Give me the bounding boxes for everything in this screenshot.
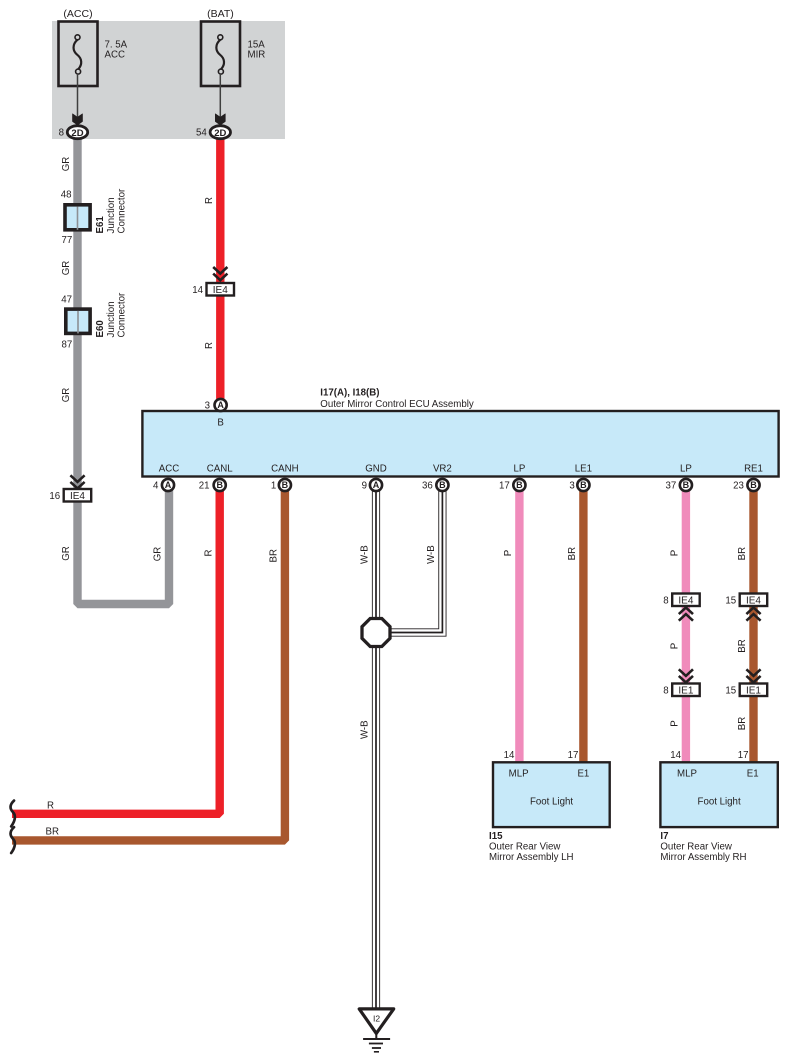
wire R from fuse MIR down to ECU pin 3 [216,136,224,401]
pin 23 B [733,479,759,492]
svg-text:R: R [204,342,215,349]
svg-text:16: 16 [49,491,60,502]
svg-text:E1: E1 [577,769,589,780]
pin 21 B [199,479,226,492]
svg-text:B: B [217,418,223,429]
svg-text:E60: E60 [95,320,106,337]
svg-text:BR: BR [269,549,280,562]
svg-text:(BAT): (BAT) [207,8,234,20]
svg-text:17: 17 [738,750,749,761]
svg-text:B: B [282,480,289,490]
svg-text:B: B [516,480,523,490]
svg-text:87: 87 [62,339,73,350]
svg-text:P: P [503,550,514,556]
svg-text:R: R [203,550,214,557]
svg-text:3: 3 [569,481,574,492]
svg-text:4: 4 [153,481,159,492]
svg-text:P: P [670,720,681,726]
svg-text:I15: I15 [489,831,503,842]
pin 9 A [362,479,382,492]
connector IE4 pin 8 [663,594,699,621]
svg-text:ACC: ACC [159,464,179,475]
svg-text:B: B [683,480,690,490]
caption I7 Outer Rear View Mirror Assembly RH [660,831,746,863]
foot light box LH [493,750,610,827]
svg-text:MLP: MLP [509,769,529,780]
svg-text:8: 8 [663,596,668,607]
svg-text:RE1: RE1 [744,464,763,475]
wire GR below IE4 elbow up to ECU pin ACC [78,488,170,604]
svg-text:B: B [439,480,446,490]
svg-text:B: B [580,480,587,490]
svg-text:Connector: Connector [117,292,128,337]
svg-text:IE4: IE4 [70,491,85,502]
svg-text:LE1: LE1 [575,464,592,475]
svg-text:W-B: W-B [360,720,371,739]
pin 1 B [271,479,291,492]
wire P from LP pin 37 to foot light MLP RH [682,488,690,762]
pin 3 B [569,479,589,492]
foot light box RH [660,750,777,827]
svg-text:14: 14 [670,750,681,761]
junction connector E60 [61,292,127,350]
connector IE4 pin 16 [49,489,91,502]
svg-text:I17(A), I18(B): I17(A), I18(B) [320,388,379,399]
svg-text:I7: I7 [660,831,668,842]
svg-text:B: B [750,480,757,490]
svg-text:17: 17 [568,750,579,761]
svg-text:15: 15 [725,596,736,607]
svg-text:LP: LP [680,464,692,475]
svg-text:(ACC): (ACC) [63,8,92,20]
svg-text:GND: GND [365,464,387,475]
svg-text:8: 8 [663,686,668,697]
svg-text:3: 3 [205,401,210,412]
svg-text:Outer Rear View: Outer Rear View [489,842,561,853]
svg-text:21: 21 [199,481,210,492]
svg-text:Junction: Junction [106,301,117,337]
wire W-B from VR2 pin elbow into octagon junction [389,488,442,633]
cut mark squiggle BR [11,827,15,853]
svg-text:Foot Light: Foot Light [698,797,741,808]
fuse 15A MIR [201,8,265,86]
caption I15 Outer Rear View Mirror Assembly LH [489,831,574,863]
fuse MIR output lead and arrow [215,74,225,126]
connector IE1 pin 15 [725,669,767,696]
svg-text:15: 15 [725,686,736,697]
svg-text:14: 14 [192,285,203,296]
svg-text:BR: BR [737,717,748,730]
svg-text:14: 14 [504,750,515,761]
octagon junction of GND wires [362,619,390,647]
svg-text:2D: 2D [214,128,226,139]
wire W-B from GND pin down to ground I2 [372,488,380,1010]
svg-text:A: A [217,400,224,410]
svg-text:E1: E1 [747,769,759,780]
svg-text:A: A [373,480,380,490]
pin 37 B [666,479,692,492]
svg-text:IE4: IE4 [746,596,761,607]
svg-text:77: 77 [62,235,73,246]
wire BR from RE1 pin 23 to foot light E1 RH [749,488,757,762]
svg-text:9: 9 [362,481,367,492]
svg-text:Foot Light: Foot Light [530,797,573,808]
arrow into IE4 pin 14 [213,267,227,280]
cut mark squiggle R [11,801,15,827]
pin 3 A top [205,399,227,429]
svg-text:Connector: Connector [117,188,128,233]
svg-text:MIR: MIR [248,50,266,61]
svg-text:BR: BR [46,827,59,838]
svg-text:BR: BR [737,639,748,652]
svg-text:IE4: IE4 [678,596,693,607]
svg-text:36: 36 [422,481,433,492]
svg-text:Outer Rear View: Outer Rear View [660,842,732,853]
svg-text:LP: LP [513,464,525,475]
ground symbol I2 [359,1009,394,1052]
svg-text:GR: GR [153,547,164,562]
svg-text:W-B: W-B [360,545,371,564]
svg-text:W-B: W-B [426,545,437,564]
svg-text:GR: GR [61,261,72,276]
wire GR from fuse ACC down to IE4 [73,136,81,489]
pin 17 B [499,479,525,492]
svg-text:B: B [216,480,223,490]
fuse 7.5A ACC [59,8,128,86]
wire P from LP pin 17 to foot light MLP [515,488,523,762]
svg-text:R: R [204,197,215,204]
svg-text:P: P [670,643,681,649]
connector IE4 pin 15 [725,594,767,621]
svg-text:17: 17 [499,481,510,492]
wire BR from LE1 pin 3 to foot light E1 [579,488,587,762]
fuse ACC output lead and arrow [73,74,83,126]
svg-text:E61: E61 [95,216,106,234]
svg-text:Junction: Junction [106,197,117,233]
svg-text:ACC: ACC [105,50,125,61]
svg-text:GR: GR [61,546,72,561]
connector IE1 pin 8 [663,669,699,696]
svg-text:BR: BR [737,547,748,560]
arrow into IE4 pin 16 [70,475,84,488]
svg-text:IE1: IE1 [746,686,761,697]
pin 4 A [153,479,174,492]
svg-text:IE1: IE1 [678,686,693,697]
svg-text:I2: I2 [373,1014,380,1024]
svg-text:Outer Mirror Control ECU Assem: Outer Mirror Control ECU Assembly [320,399,474,410]
svg-text:GR: GR [61,157,72,172]
svg-text:1: 1 [271,481,276,492]
svg-text:Mirror Assembly LH: Mirror Assembly LH [489,852,574,863]
svg-text:IE4: IE4 [213,285,228,296]
svg-text:P: P [670,550,681,556]
wire R from CANL elbow to left cut [12,488,220,814]
svg-text:54: 54 [196,128,207,139]
svg-text:2D: 2D [71,128,83,139]
svg-text:48: 48 [61,190,72,201]
svg-text:CANH: CANH [271,464,298,475]
svg-text:37: 37 [666,481,677,492]
svg-text:VR2: VR2 [433,464,452,475]
svg-text:A: A [165,480,172,490]
relay block panel [52,21,285,139]
connector 2D pin 8 [59,126,88,139]
svg-text:R: R [47,801,54,812]
svg-text:8: 8 [59,128,64,139]
svg-text:MLP: MLP [677,769,697,780]
wire BR from CANH elbow to left cut [12,488,285,840]
pin 36 B [422,479,448,492]
svg-text:GR: GR [61,388,72,403]
svg-text:BR: BR [567,547,578,560]
svg-text:Mirror Assembly RH: Mirror Assembly RH [660,852,746,863]
svg-text:47: 47 [61,294,72,305]
svg-text:CANL: CANL [207,464,233,475]
connector IE4 pin 14 [192,283,234,296]
junction connector E61 [61,188,128,246]
connector 2D pin 54 [196,126,230,139]
ECU box I17/I18 Outer Mirror Control ECU Assembly [142,411,778,477]
svg-text:23: 23 [733,481,744,492]
